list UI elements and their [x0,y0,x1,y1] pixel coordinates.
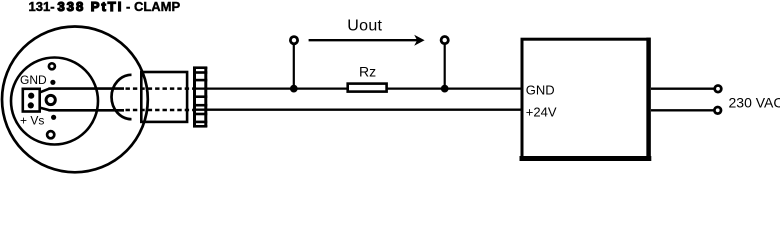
title text 131-338 PtTI - CLAMP [29,0,181,14]
supply box right edge (thicker) [646,38,651,161]
wire mains bottom [651,109,714,111]
supply box bottom edge (thicker) [520,156,652,161]
screw hole bottom [47,131,54,138]
marker dot upper [50,80,55,85]
connector coupling ring (ladder) [193,67,207,127]
wire GND (connector to resistor Rz) [193,87,347,89]
wire Vs (connector to supply box) [193,109,521,111]
svg-text:GND: GND [20,73,47,87]
screw hole top [49,63,55,69]
screw hole middle [46,95,55,104]
junction dot left Uout tap [290,85,298,93]
stem left Uout [293,44,295,89]
junction dot right Uout tap [441,85,449,93]
sensor outer circle [2,27,148,173]
terminal circle mains bottom [714,107,721,114]
terminal circle right Uout [441,37,448,44]
wire GND dashed (inside connector) [126,87,194,90]
pin square [23,89,40,112]
Uout arrow line [309,39,418,41]
svg-text:+ Vs: + Vs [20,113,44,127]
sensor inner circle [11,58,98,145]
stem right Uout [444,44,446,89]
supply box [522,39,649,157]
marker dot lower [51,115,56,120]
terminal circle left Uout [290,37,297,44]
connector plug half-ellipse [112,75,132,119]
resistor Rz body [348,84,387,92]
wedge top edge [40,89,50,93]
wire GND solid (sensor to connector) [49,87,125,90]
svg-text:- CLAMP: - CLAMP [126,0,180,14]
svg-text:Uout: Uout [347,18,382,35]
wire GND (resistor Rz to supply box) [388,87,522,89]
pin dot GND [28,93,34,99]
svg-text:338 PtTI: 338 PtTI [58,0,124,14]
wire Vs solid (sensor to connector) [49,109,125,112]
terminal circle mains top [715,86,722,93]
svg-text:+24V: +24V [526,105,557,120]
wedge bottom edge [40,108,50,111]
svg-text:Rz: Rz [359,64,376,80]
Uout arrowhead [414,35,424,46]
wire Vs dashed (inside connector) [126,109,194,112]
connector body rectangle [141,72,187,122]
wire mains top [651,88,714,90]
svg-text:GND: GND [526,83,555,98]
pin dot Vs [28,102,34,108]
svg-text:230 VAC: 230 VAC [729,95,780,111]
svg-text:131-: 131- [29,0,55,14]
